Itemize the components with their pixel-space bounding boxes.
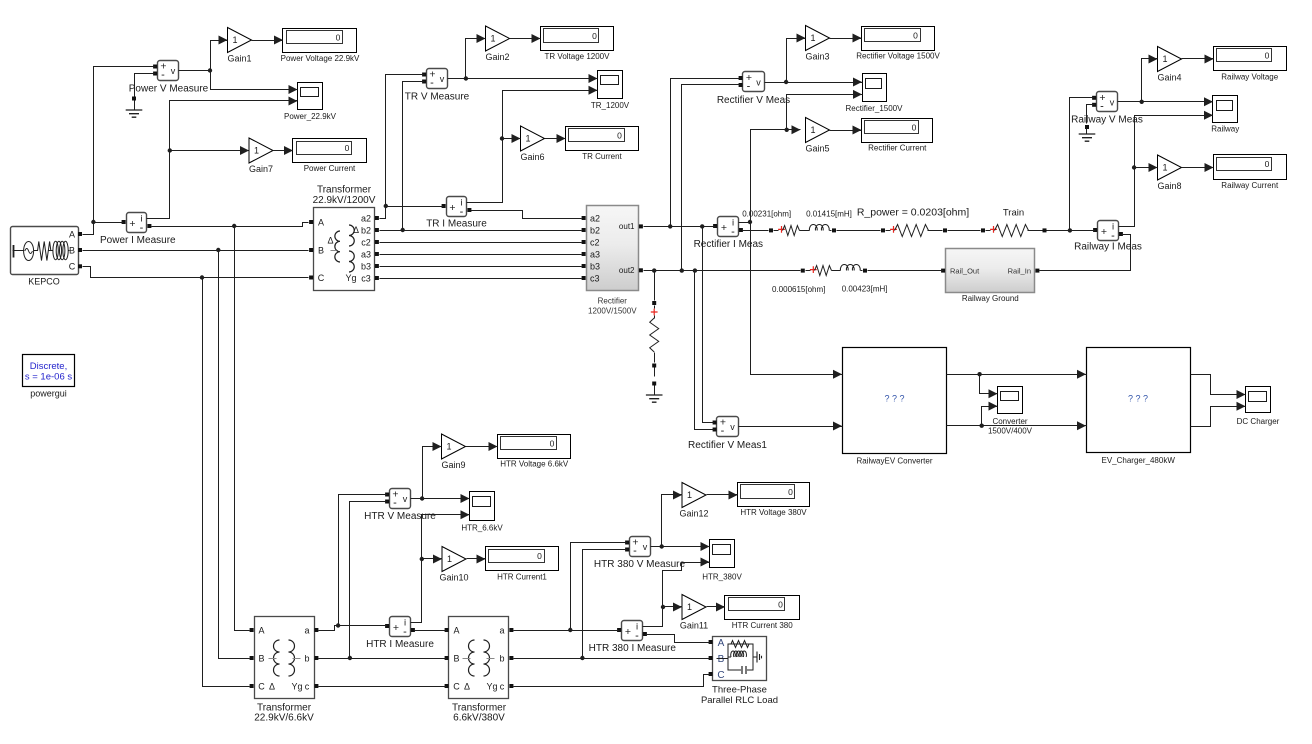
svg-text:Railway Ground: Railway Ground — [962, 294, 1019, 303]
svg-text:C: C — [453, 682, 460, 692]
svg-text:HTR 380 I Measure: HTR 380 I Measure — [589, 643, 677, 654]
svg-text:B: B — [258, 654, 264, 664]
svg-text:b3: b3 — [361, 262, 371, 272]
svg-text:Discrete,: Discrete, — [30, 361, 67, 372]
svg-text:c: c — [500, 682, 505, 692]
svg-text:c2: c2 — [590, 238, 600, 248]
svg-text:DC Charger: DC Charger — [1237, 417, 1280, 426]
svg-text:22.9kV/6.6kV: 22.9kV/6.6kV — [254, 713, 314, 724]
svg-text:Rectifier I Meas: Rectifier I Meas — [694, 239, 763, 250]
svg-text:v: v — [440, 74, 445, 84]
svg-text:Gain2: Gain2 — [485, 52, 509, 62]
svg-text:-: - — [721, 425, 725, 437]
svg-text:-: - — [731, 226, 735, 238]
svg-text:v: v — [171, 66, 176, 76]
svg-text:HTR Current 380: HTR Current 380 — [732, 621, 793, 630]
svg-text:v: v — [403, 494, 408, 504]
svg-text:0.01415[mH]: 0.01415[mH] — [806, 209, 852, 218]
svg-text:Yg: Yg — [291, 682, 302, 692]
svg-text:+: + — [625, 626, 631, 638]
svg-text:Rectifier: Rectifier — [598, 297, 628, 306]
svg-text:Railway V Meas: Railway V Meas — [1071, 114, 1143, 125]
svg-text:22.9kV/1200V: 22.9kV/1200V — [313, 195, 376, 206]
svg-text:Rectifier V Meas1: Rectifier V Meas1 — [688, 440, 767, 451]
svg-text:HTR Voltage 6.6kV: HTR Voltage 6.6kV — [500, 460, 569, 469]
svg-text:a3: a3 — [361, 250, 371, 260]
svg-text:+: + — [1101, 226, 1107, 238]
svg-text:Train: Train — [1003, 208, 1024, 219]
svg-text:C: C — [318, 273, 325, 283]
svg-text:Railway I Meas: Railway I Meas — [1074, 242, 1142, 253]
svg-text:-: - — [1100, 100, 1104, 112]
svg-text:1: 1 — [447, 554, 452, 564]
svg-text:b3: b3 — [590, 262, 600, 272]
svg-text:Rectifier_1500V: Rectifier_1500V — [846, 104, 904, 113]
svg-text:0: 0 — [592, 31, 597, 41]
svg-text:1: 1 — [446, 442, 451, 452]
svg-text:TR_1200V: TR_1200V — [591, 101, 630, 110]
svg-text:0: 0 — [913, 30, 918, 40]
svg-text:b2: b2 — [590, 226, 600, 236]
svg-text:1: 1 — [687, 490, 692, 500]
svg-text:+: + — [129, 218, 135, 230]
svg-text:A: A — [258, 626, 264, 636]
svg-text:Power I Measure: Power I Measure — [100, 235, 176, 246]
svg-text:Gain4: Gain4 — [1157, 73, 1181, 83]
svg-text:HTR_380V: HTR_380V — [702, 572, 742, 581]
svg-text:? ? ?: ? ? ? — [884, 394, 904, 404]
svg-text:b: b — [499, 654, 504, 664]
svg-text:A: A — [318, 218, 324, 228]
svg-text:-: - — [403, 626, 407, 638]
svg-text:c3: c3 — [361, 274, 371, 284]
svg-text:-: - — [633, 545, 637, 557]
svg-text:Power V Measure: Power V Measure — [129, 84, 209, 95]
svg-text:1: 1 — [254, 146, 259, 156]
svg-text:? ? ?: ? ? ? — [1128, 394, 1148, 404]
svg-text:TR V Measure: TR V Measure — [405, 92, 470, 103]
svg-text:C: C — [69, 262, 76, 272]
svg-text:a3: a3 — [590, 250, 600, 260]
svg-text:Parallel RLC Load: Parallel RLC Load — [701, 695, 778, 706]
svg-text:0.00423[mH]: 0.00423[mH] — [842, 285, 888, 294]
svg-text:a: a — [304, 626, 309, 636]
svg-text:Gain3: Gain3 — [805, 52, 829, 62]
svg-text:0: 0 — [912, 123, 917, 133]
svg-text:HTR I Measure: HTR I Measure — [366, 639, 434, 650]
svg-text:0.00231[ohm]: 0.00231[ohm] — [742, 209, 791, 218]
svg-text:Gain8: Gain8 — [1157, 181, 1181, 191]
svg-text:-: - — [430, 77, 434, 89]
svg-text:Railway Voltage: Railway Voltage — [1221, 73, 1278, 82]
svg-text:+: + — [721, 222, 727, 234]
svg-text:Railway Current: Railway Current — [1221, 181, 1279, 190]
svg-text:-: - — [393, 497, 397, 509]
svg-text:1: 1 — [1162, 54, 1167, 64]
svg-text:out1: out1 — [619, 222, 635, 231]
svg-text:Gain7: Gain7 — [249, 164, 273, 174]
svg-text:1: 1 — [810, 125, 815, 135]
svg-text:-: - — [635, 630, 639, 642]
svg-text:1: 1 — [525, 134, 530, 144]
svg-text:0.000615[ohm]: 0.000615[ohm] — [772, 285, 825, 294]
svg-text:Railway: Railway — [1211, 125, 1239, 134]
svg-text:Power_22.9kV: Power_22.9kV — [284, 112, 337, 121]
svg-text:Gain9: Gain9 — [441, 460, 465, 470]
svg-text:+: + — [393, 622, 399, 634]
svg-text:0: 0 — [1265, 159, 1270, 169]
svg-text:Converter: Converter — [992, 417, 1027, 426]
svg-text:C: C — [258, 682, 265, 692]
svg-text:b2: b2 — [361, 226, 371, 236]
svg-text:c3: c3 — [590, 274, 600, 284]
svg-text:v: v — [643, 542, 648, 552]
svg-text:Gain6: Gain6 — [520, 152, 544, 162]
svg-text:-: - — [140, 222, 144, 234]
svg-text:B: B — [453, 654, 459, 664]
svg-text:TR Voltage 1200V: TR Voltage 1200V — [545, 52, 611, 61]
svg-text:Rectifier Current: Rectifier Current — [868, 144, 927, 153]
svg-text:Rectifier V Meas: Rectifier V Meas — [717, 95, 790, 106]
svg-text:C: C — [717, 670, 724, 681]
svg-text:A: A — [453, 626, 459, 636]
svg-text:TR Current: TR Current — [582, 152, 622, 161]
svg-text:Δ: Δ — [353, 225, 359, 235]
svg-text:RailwayEV Converter: RailwayEV Converter — [856, 457, 932, 466]
svg-text:6.6kV/380V: 6.6kV/380V — [453, 713, 505, 724]
svg-text:HTR_6.6kV: HTR_6.6kV — [461, 524, 503, 533]
svg-text:Yg: Yg — [486, 682, 497, 692]
svg-text:1: 1 — [232, 35, 237, 45]
svg-text:s = 1e-06 s: s = 1e-06 s — [25, 371, 73, 382]
svg-text:0: 0 — [1265, 50, 1270, 60]
svg-text:Gain5: Gain5 — [805, 144, 829, 154]
svg-text:Rail_In: Rail_In — [1008, 266, 1031, 275]
svg-text:-: - — [460, 206, 464, 218]
svg-text:0: 0 — [345, 143, 350, 153]
svg-text:EV_Charger_480kW: EV_Charger_480kW — [1102, 456, 1176, 465]
svg-text:v: v — [730, 422, 735, 432]
svg-text:A: A — [69, 230, 75, 240]
svg-text:Gain1: Gain1 — [227, 54, 251, 64]
svg-text:TR I Measure: TR I Measure — [426, 219, 487, 230]
svg-text:1: 1 — [1162, 163, 1167, 173]
svg-text:Rectifier Voltage 1500V: Rectifier Voltage 1500V — [856, 52, 940, 61]
svg-text:0: 0 — [550, 438, 555, 448]
svg-text:Gain11: Gain11 — [680, 621, 708, 631]
svg-text:HTR V Measure: HTR V Measure — [364, 511, 436, 522]
svg-text:v: v — [1110, 97, 1115, 107]
svg-text:0: 0 — [336, 33, 341, 43]
svg-text:0: 0 — [537, 551, 542, 561]
svg-text:Gain12: Gain12 — [679, 509, 708, 519]
svg-text:B: B — [318, 246, 324, 256]
svg-text:Yg: Yg — [345, 273, 356, 283]
svg-text:powergui: powergui — [30, 389, 67, 399]
svg-text:HTR Voltage 380V: HTR Voltage 380V — [740, 508, 807, 517]
svg-text:a2: a2 — [590, 214, 600, 224]
svg-text:-: - — [747, 81, 751, 93]
svg-text:KEPCO: KEPCO — [28, 277, 60, 287]
svg-text:B: B — [69, 246, 75, 256]
svg-text:Rail_Out: Rail_Out — [950, 266, 980, 275]
svg-text:v: v — [756, 78, 761, 88]
svg-text:A: A — [718, 638, 725, 649]
svg-text:c2: c2 — [361, 238, 371, 248]
svg-text:0: 0 — [778, 600, 783, 610]
svg-text:a: a — [499, 626, 504, 636]
svg-text:+: + — [449, 202, 455, 214]
svg-text:Power Current: Power Current — [304, 164, 356, 173]
svg-text:1: 1 — [687, 602, 692, 612]
svg-text:HTR Current1: HTR Current1 — [497, 572, 547, 581]
svg-text:1500V/400V: 1500V/400V — [988, 426, 1033, 435]
svg-text:0: 0 — [617, 131, 622, 141]
svg-text:Transformer: Transformer — [317, 185, 372, 196]
svg-text:0: 0 — [788, 487, 793, 497]
svg-text:a2: a2 — [361, 214, 371, 224]
svg-text:1200V/1500V: 1200V/1500V — [588, 307, 637, 316]
svg-text:1: 1 — [490, 34, 495, 44]
svg-text:1: 1 — [810, 33, 815, 43]
svg-text:B: B — [718, 654, 725, 665]
svg-text:Δ: Δ — [464, 682, 470, 692]
svg-text:Gain10: Gain10 — [439, 573, 468, 583]
svg-text:HTR 380 V Measure: HTR 380 V Measure — [594, 559, 686, 570]
svg-text:b: b — [304, 654, 309, 664]
svg-text:R_power = 0.0203[ohm]: R_power = 0.0203[ohm] — [857, 207, 969, 219]
svg-text:Power Voltage 22.9kV: Power Voltage 22.9kV — [281, 54, 360, 63]
svg-text:Δ: Δ — [327, 236, 333, 246]
svg-text:-: - — [1111, 230, 1115, 242]
svg-text:out2: out2 — [619, 266, 635, 275]
svg-text:c: c — [305, 682, 310, 692]
svg-text:Δ: Δ — [269, 682, 275, 692]
svg-text:-: - — [161, 69, 165, 81]
